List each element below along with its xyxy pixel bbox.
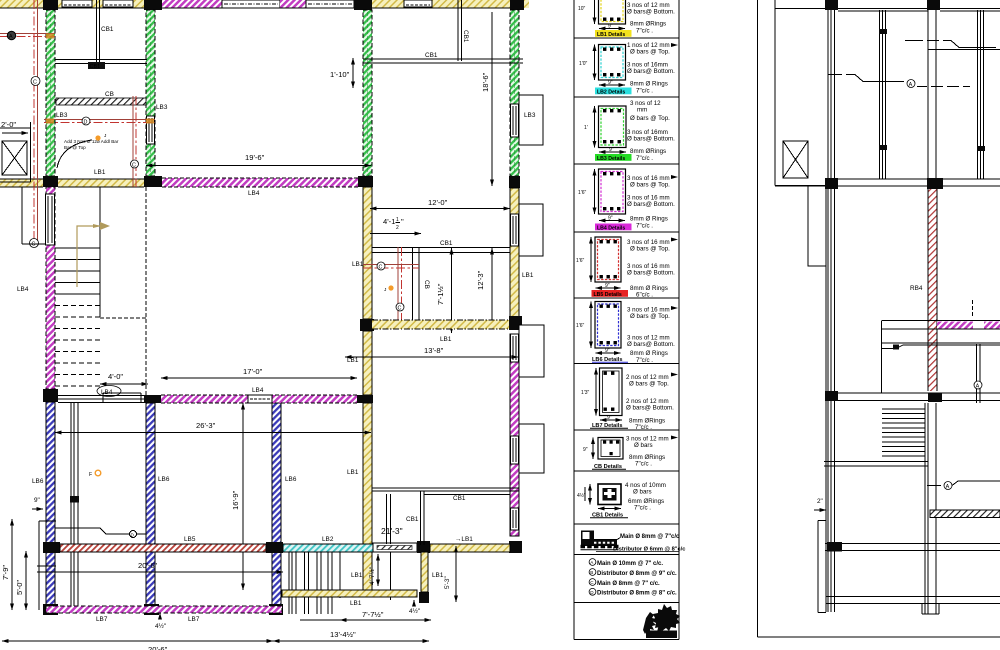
text cell6 xyxy=(627,306,678,364)
details column frame xyxy=(574,0,679,640)
label bar LB3 Details xyxy=(595,154,632,162)
beam LB6 vertical VC blue xyxy=(272,403,281,606)
dim 4 1/2" east xyxy=(409,600,420,615)
svg-text:CB1: CB1 xyxy=(453,495,466,502)
beam RB4 red vertical xyxy=(928,189,937,391)
beam H right plan low3 xyxy=(826,597,1000,604)
svg-text:Ø bars @ Top.: Ø bars @ Top. xyxy=(630,246,670,253)
beam top row magenta segment 2 xyxy=(280,0,306,8)
stair dashed break xyxy=(100,317,146,319)
svg-text:A: A xyxy=(909,82,913,88)
svg-text:2: 2 xyxy=(396,225,399,231)
label LB6 Details xyxy=(592,357,628,363)
dim 18'-6" vertical xyxy=(481,12,492,186)
outer wall west xyxy=(775,0,828,186)
door box VE magenta low xyxy=(511,508,519,530)
svg-text:9": 9" xyxy=(608,80,613,86)
grid line C red vertical xyxy=(30,0,41,248)
section LB6 detail xyxy=(576,302,621,355)
svg-text:Main Ø 8mm @ 7"c/c: Main Ø 8mm @ 7"c/c xyxy=(620,534,680,540)
column VD-LB4 xyxy=(357,395,373,403)
grid red vertical at VB area xyxy=(131,96,139,187)
door box in VE yellow xyxy=(511,214,519,246)
column VC top xyxy=(269,395,283,403)
leader circle A low xyxy=(927,481,1000,490)
svg-text:LB2: LB2 xyxy=(322,536,334,543)
svg-text:C: C xyxy=(379,265,383,271)
top beam line xyxy=(775,9,1000,12)
svg-text:9": 9" xyxy=(583,447,588,453)
svg-text:8mm Ø Rings: 8mm Ø Rings xyxy=(630,216,668,223)
hatch box in VE magenta lower xyxy=(511,436,519,464)
lift shaft box xyxy=(0,122,31,182)
label CB1 Details xyxy=(590,513,628,519)
svg-text:17'-0": 17'-0" xyxy=(243,367,263,376)
svg-text:9": 9" xyxy=(608,216,613,222)
leader line A mid xyxy=(828,75,970,89)
left small boundary above lift xyxy=(0,127,31,129)
svg-text:9": 9" xyxy=(608,24,613,30)
boundary bottom line xyxy=(758,636,1000,638)
column low1 a xyxy=(825,391,838,401)
beam CB1 horizontal low xyxy=(372,488,519,495)
box in VE green xyxy=(511,104,519,137)
svg-text:13'-8": 13'-8" xyxy=(424,346,444,355)
svg-text:2": 2" xyxy=(817,498,823,505)
cell divider 4 xyxy=(574,231,679,233)
beam CB1 vertical top-right pair xyxy=(458,0,462,61)
dim 5'-3" vertical xyxy=(444,546,456,602)
svg-text:7'-9": 7'-9" xyxy=(1,565,10,580)
left wall line upper xyxy=(22,187,46,244)
door box in VA magenta xyxy=(46,194,55,245)
svg-text:7'-1½": 7'-1½" xyxy=(436,283,445,305)
dim 13'-4 1/2" xyxy=(273,630,429,641)
svg-text:LB6: LB6 xyxy=(158,476,170,483)
wall pair bottom-left room xyxy=(70,403,79,610)
svg-text:Ø bars @ Top.: Ø bars @ Top. xyxy=(630,182,670,189)
dim 26'-3" xyxy=(55,421,371,433)
beam LB6 vertical VB blue xyxy=(146,403,155,606)
svg-text:4'-0": 4'-0" xyxy=(108,372,123,381)
svg-text:1'3": 1'3" xyxy=(581,390,590,396)
svg-text:A: A xyxy=(9,34,13,40)
beam LB7 magenta bottom xyxy=(46,606,282,623)
dim 17'-0" xyxy=(161,367,357,378)
stair mid wall xyxy=(99,187,101,317)
side box at VE magenta upper xyxy=(519,325,544,377)
svg-text:4'-1: 4'-1 xyxy=(383,217,395,226)
text cell8 xyxy=(626,436,678,468)
box in VB green xyxy=(147,116,155,144)
stair treads solid xyxy=(55,248,100,294)
svg-text:1': 1' xyxy=(584,125,588,131)
svg-text:B: B xyxy=(590,570,593,575)
lintel box top 2 xyxy=(306,0,354,8)
column VD-H2 xyxy=(358,176,373,187)
dim 2" right xyxy=(814,498,826,510)
svg-text:7"c/c .: 7"c/c . xyxy=(635,424,652,431)
svg-text:mm: mm xyxy=(637,107,647,114)
svg-text:CB1: CB1 xyxy=(101,26,114,33)
wall vertical stair right xyxy=(881,321,883,394)
svg-text:6"c/c .: 6"c/c . xyxy=(636,292,653,299)
svg-text:1'6": 1'6" xyxy=(578,190,587,196)
svg-text:Ø bars@ Bottom.: Ø bars@ Bottom. xyxy=(627,68,675,75)
svg-text:Ø bars @ Top.: Ø bars @ Top. xyxy=(630,313,670,320)
tick orange on VA xyxy=(46,119,54,124)
svg-text:LB1: LB1 xyxy=(440,336,452,343)
text cell11 line D xyxy=(589,588,677,596)
beam LB3 vertical VB green xyxy=(146,10,155,176)
stair bottom landing xyxy=(58,393,144,403)
beam LB4 H2 magenta xyxy=(162,178,358,187)
note dot F xyxy=(89,470,101,478)
svg-text:LB1 Details: LB1 Details xyxy=(597,32,625,38)
svg-text:Ø bars@ Bottom.: Ø bars@ Bottom. xyxy=(626,405,674,412)
note add bars top xyxy=(57,133,119,168)
svg-text:1'-10": 1'-10" xyxy=(330,70,350,79)
svg-text:LB1: LB1 xyxy=(522,272,534,279)
svg-text:LB6: LB6 xyxy=(285,476,297,483)
wall vertical stair pair xyxy=(925,403,936,614)
svg-text:LB3 Details: LB3 Details xyxy=(597,156,625,162)
column top D xyxy=(510,0,524,10)
svg-text:9": 9" xyxy=(605,348,610,354)
section LB7 detail xyxy=(581,368,622,421)
text cell11 line C xyxy=(589,579,660,587)
dim 19'-6" xyxy=(146,153,371,166)
svg-text:7"c/c .: 7"c/c . xyxy=(636,28,653,35)
column VE-LB1 bottom xyxy=(509,541,522,553)
label LB7 Details xyxy=(590,423,628,429)
svg-text:Ø bars@ Bottom.: Ø bars@ Bottom. xyxy=(627,341,675,348)
svg-text:LB7: LB7 xyxy=(96,616,108,623)
column LB2-LB1 xyxy=(417,541,430,553)
dim 7'-7 1/2" xyxy=(300,610,431,620)
svg-text:10": 10" xyxy=(578,6,586,12)
wall line under lift xyxy=(825,189,827,612)
beam CB right hatched xyxy=(930,510,1000,518)
note dot mid xyxy=(384,285,394,293)
svg-text:8mm Ø Rings: 8mm Ø Rings xyxy=(630,81,668,88)
text cell10 xyxy=(596,534,685,553)
svg-text:LB3: LB3 xyxy=(156,104,168,111)
svg-text:": " xyxy=(401,217,404,226)
column VA-H2 xyxy=(43,176,58,187)
svg-text:LB4 Details: LB4 Details xyxy=(597,225,625,231)
svg-text:LB3: LB3 xyxy=(56,112,68,119)
column top 2 xyxy=(927,0,940,10)
svg-text:Distributor Ø 8mm @ 8" c/c.: Distributor Ø 8mm @ 8" c/c. xyxy=(597,591,677,597)
svg-text:Ø bars @ Top.: Ø bars @ Top. xyxy=(630,115,670,122)
text cell7 xyxy=(626,373,678,432)
leader line B xyxy=(882,343,1000,350)
beam top row yellow segment B xyxy=(58,0,144,8)
svg-text:1'0": 1'0" xyxy=(579,61,588,67)
beam LB1 vertical stub SE xyxy=(421,552,428,592)
svg-text:CB1: CB1 xyxy=(462,30,469,43)
svg-text:Main Ø 10mm @ 7" c/c.: Main Ø 10mm @ 7" c/c. xyxy=(597,561,663,567)
beam top row magenta segment 1 xyxy=(162,0,222,8)
svg-text:9": 9" xyxy=(34,497,40,504)
dim line bottom long xyxy=(2,641,273,650)
window box in top beam B1 xyxy=(62,0,92,7)
wall vertical 4 xyxy=(977,10,985,179)
text cell4 xyxy=(627,175,678,230)
dim 20'-6" mid xyxy=(39,561,283,572)
svg-text:7"c/c .: 7"c/c . xyxy=(636,155,653,162)
svg-text:9": 9" xyxy=(605,283,610,289)
boundary west line xyxy=(757,0,759,637)
beam LB3 vertical VA green xyxy=(46,10,55,176)
svg-text:CB1: CB1 xyxy=(425,52,438,59)
dim 16'-9" vertical xyxy=(231,403,243,590)
label LB4 circled xyxy=(97,386,121,397)
svg-text:CB1: CB1 xyxy=(440,240,453,247)
section CB1 detail xyxy=(577,484,621,509)
beam H2 yellow west xyxy=(0,179,43,187)
beam CB1 vertical low pair xyxy=(387,494,391,544)
cell divider 8 xyxy=(574,470,679,472)
dim 4'-0" stair xyxy=(100,372,148,384)
beam VA magenta (stair west) xyxy=(46,187,55,389)
svg-text:Ø bars@ Bottom.: Ø bars@ Bottom. xyxy=(627,270,675,277)
svg-text:A: A xyxy=(946,484,950,490)
svg-text:8mm ØRings: 8mm ØRings xyxy=(630,21,666,28)
svg-text:26'-3": 26'-3" xyxy=(196,421,216,430)
svg-text:Ø bars: Ø bars xyxy=(633,489,652,496)
svg-text:LB1: LB1 xyxy=(347,357,359,364)
svg-text:Ø bars@ Bottom.: Ø bars@ Bottom. xyxy=(627,136,675,143)
beam top row yellow segment C xyxy=(372,0,510,8)
svg-text:7"c/c .: 7"c/c . xyxy=(636,88,653,95)
svg-text:LB5 Details: LB5 Details xyxy=(594,292,622,298)
window box in top beam B2 xyxy=(103,0,133,7)
railing right edge xyxy=(339,552,341,598)
svg-text:CB1: CB1 xyxy=(406,516,419,523)
label bar LB5 Details xyxy=(592,290,629,298)
svg-text:Main Ø 8mm @ 7" c/c.: Main Ø 8mm @ 7" c/c. xyxy=(597,581,660,587)
dim 5'-0" vertical xyxy=(15,551,26,610)
dim 7'-1 1/2" vertical xyxy=(436,248,452,333)
svg-text:C: C xyxy=(132,163,136,169)
column low1 b xyxy=(928,393,942,402)
stair right plan xyxy=(882,409,925,456)
svg-text:LB1: LB1 xyxy=(352,261,364,268)
beam LB1 yellow horizontal bottom xyxy=(282,590,417,607)
grid red cross mid horizontal xyxy=(363,262,419,271)
wall vertical right pair low xyxy=(974,344,982,403)
section LB2 detail xyxy=(579,45,626,87)
beam LB5 red horizontal xyxy=(60,536,266,552)
MIDDLE DETAILS COLUMN xyxy=(574,0,685,640)
beam LB1 yellow horizontal SE xyxy=(430,536,510,552)
svg-text:1'6": 1'6" xyxy=(576,323,585,329)
dim 4'-7 1/2" vertical xyxy=(368,554,378,586)
tick orange on VA grid A xyxy=(46,34,54,39)
svg-text:5'-3": 5'-3" xyxy=(444,576,451,589)
svg-text:13'-4½": 13'-4½" xyxy=(330,630,356,639)
text cell3 xyxy=(627,100,675,162)
boundary step right xyxy=(818,521,826,613)
svg-text:F: F xyxy=(89,472,92,478)
dim 4 1/2" west xyxy=(155,613,166,630)
svg-text:12'-0": 12'-0" xyxy=(428,198,448,207)
svg-text:CB: CB xyxy=(105,91,114,98)
beam LB2 cyan horizontal xyxy=(283,536,417,552)
lift box right plan xyxy=(783,141,808,178)
svg-text:LB7: LB7 xyxy=(188,616,200,623)
text cell5 xyxy=(627,238,678,299)
svg-text:4'-7½": 4'-7½" xyxy=(368,567,376,585)
grid line A red top xyxy=(0,31,55,40)
svg-text:LB3: LB3 xyxy=(524,112,536,119)
svg-text:20'-6": 20'-6" xyxy=(138,561,158,570)
vertical line low mid xyxy=(390,552,392,600)
beam H stair bottom xyxy=(824,462,928,467)
svg-text:1'6": 1'6" xyxy=(576,258,585,264)
section LB4 detail xyxy=(578,169,626,222)
svg-text:LB4: LB4 xyxy=(17,286,29,293)
svg-text:A: A xyxy=(976,384,980,390)
window box in top beam C xyxy=(404,0,432,7)
beam LB1 vertical VD yellow upper xyxy=(363,187,372,319)
dim 13'-8" xyxy=(345,346,518,357)
cell divider 2 xyxy=(574,96,679,98)
column top C xyxy=(354,0,372,10)
dim 1'-10" xyxy=(330,58,353,88)
beam H right plan low2 xyxy=(825,544,1000,551)
dim 4'-1 1/2" xyxy=(370,217,421,234)
dim 2'-0" top-left xyxy=(1,120,28,133)
beam top row yellow segment A xyxy=(0,0,45,8)
leader line top right xyxy=(905,41,1000,50)
svg-text:LB1: LB1 xyxy=(351,572,363,579)
svg-text:12'-3": 12'-3" xyxy=(476,270,485,290)
svg-text:CB1: CB1 xyxy=(90,64,101,70)
column low2 xyxy=(827,542,842,552)
svg-text:CB: CB xyxy=(423,280,430,289)
stair treads dashed xyxy=(55,306,100,387)
section CB detail xyxy=(583,438,623,460)
dim 9" small xyxy=(32,497,43,509)
cell divider 7 xyxy=(574,429,679,431)
svg-text:4½": 4½" xyxy=(577,492,586,499)
section LB1 detail xyxy=(578,0,626,30)
box in LB2 xyxy=(373,543,417,552)
cell divider 9 xyxy=(574,523,679,525)
column VA-LB4 xyxy=(43,389,58,402)
cell divider 3 xyxy=(574,163,679,165)
beam LB4 dashed magenta horizontal xyxy=(161,395,357,403)
svg-text:5'-0": 5'-0" xyxy=(15,580,24,595)
column VE-LB1 xyxy=(509,316,522,330)
label CB1 junction xyxy=(88,62,105,70)
beam LB1 vertical VD yellow mid xyxy=(363,331,372,395)
beam CB vertical mid pair xyxy=(413,248,420,322)
beam LB1 dashed yellow horizontal xyxy=(372,320,509,329)
stair up arrow tan xyxy=(77,222,110,287)
svg-text:→LB1: →LB1 xyxy=(455,536,473,543)
svg-text:C: C xyxy=(398,306,402,312)
svg-text:9": 9" xyxy=(609,147,614,153)
column VE-H2 xyxy=(509,176,520,188)
beam H right plan mid xyxy=(775,179,1000,186)
column VB bottom xyxy=(144,604,159,615)
svg-text:Ø bars@ Bottom.: Ø bars@ Bottom. xyxy=(627,201,675,208)
column VC bottom xyxy=(269,604,283,615)
lintel box LB4 beam xyxy=(248,395,272,403)
svg-text:7"c/c .: 7"c/c . xyxy=(635,461,652,468)
text cell11 line A xyxy=(589,559,663,567)
column top A xyxy=(43,0,58,10)
label bar LB4 Details xyxy=(595,224,632,232)
svg-text:D: D xyxy=(84,120,88,126)
column VA-LB5 xyxy=(43,542,60,553)
beam LB1 H2 yellow xyxy=(58,179,144,187)
left boundary bottom-left xyxy=(37,521,56,610)
label bar LB1 Details xyxy=(595,30,632,38)
section LB5 detail xyxy=(576,237,621,289)
column mid 1 xyxy=(825,178,838,189)
tree stamp xyxy=(643,604,680,638)
svg-text:Ø bars: Ø bars xyxy=(634,442,653,449)
beam LB4 vertical VE magenta xyxy=(510,334,519,536)
svg-text:4½": 4½" xyxy=(409,607,420,615)
section LB3 detail xyxy=(584,106,626,153)
column mid 2 xyxy=(927,178,943,189)
tick orange on VB xyxy=(146,119,154,124)
svg-text:7'-7½": 7'-7½" xyxy=(362,610,384,619)
svg-text:Ø bars @ Top.: Ø bars @ Top. xyxy=(630,49,670,56)
svg-text:7"c/c .: 7"c/c . xyxy=(634,505,651,512)
side box LB3 xyxy=(519,95,543,145)
text cell11 line B xyxy=(589,569,677,577)
svg-text:20'-6": 20'-6" xyxy=(148,645,168,650)
column VA bottom xyxy=(43,604,58,615)
label CB Details xyxy=(592,464,626,470)
cell divider 6 xyxy=(574,363,679,365)
wall vertical 1 xyxy=(828,10,835,612)
svg-text:LB1: LB1 xyxy=(350,600,362,607)
beam CB1 horizontal mid xyxy=(372,248,510,253)
cell divider 5 xyxy=(574,297,679,299)
text cell2 xyxy=(627,42,678,95)
LEFT PLAN xyxy=(0,0,544,650)
column top 1 xyxy=(825,0,838,10)
beam CB1 horizontal top-right xyxy=(363,59,523,63)
wall bottom right stub xyxy=(922,604,939,615)
cell divider 11 xyxy=(574,602,679,604)
column VC-LB5 xyxy=(266,542,283,553)
beam CB1 vertical low-right pair xyxy=(421,491,425,545)
svg-text:Ø bars @ Top.: Ø bars @ Top. xyxy=(629,381,669,388)
svg-text:LB5: LB5 xyxy=(184,536,196,543)
beam CB1 vertical top pair xyxy=(97,0,100,62)
beam H right plan low1 xyxy=(833,393,1000,401)
wall vertical 3 xyxy=(928,10,936,179)
door box in VE magenta xyxy=(511,334,519,362)
cell divider 10 xyxy=(574,554,679,556)
cell divider 1 xyxy=(574,37,679,39)
dashed line top right xyxy=(972,300,974,316)
column VB-H2 xyxy=(144,176,162,187)
RIGHT PLAN xyxy=(758,0,1000,637)
svg-text:LB1: LB1 xyxy=(432,572,444,579)
svg-text:RB4: RB4 xyxy=(910,285,923,292)
svg-text:LB4: LB4 xyxy=(252,387,264,394)
